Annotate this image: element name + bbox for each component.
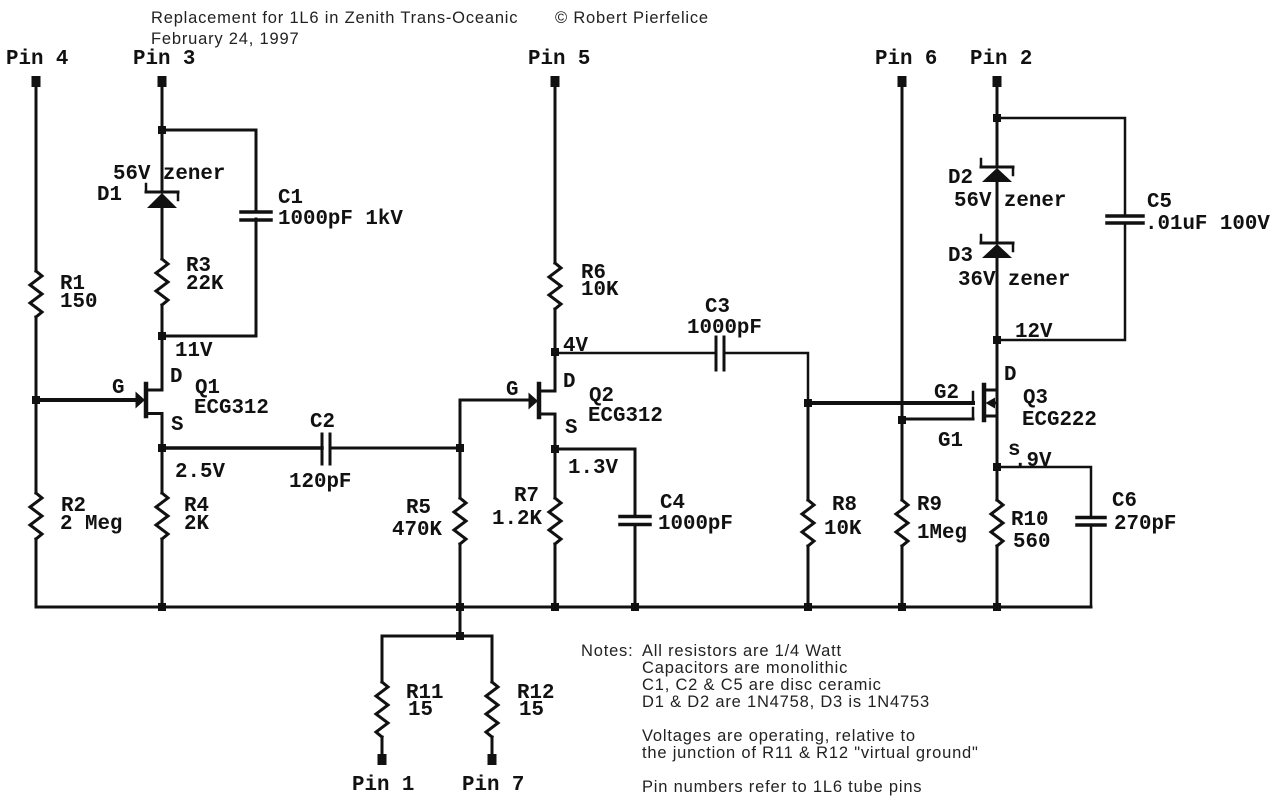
wire virtual ground right: [460, 636, 492, 682]
resistor R9: [896, 500, 908, 546]
svg-text:C1: C1: [278, 187, 303, 210]
capacitor C1: [241, 212, 271, 220]
resistor R1: [30, 271, 42, 317]
svg-text:2 Meg: 2 Meg: [60, 513, 122, 536]
zener D3: [981, 235, 1013, 258]
wire C1 branch bottom: [162, 219, 256, 336]
wire R12 to Pin7: [491, 737, 494, 755]
svg-text:R7: R7: [514, 485, 539, 508]
svg-text:ECG312: ECG312: [588, 405, 663, 428]
wire R5 to bottom rail: [459, 544, 462, 607]
pin pad Pin 1: [378, 754, 387, 765]
svg-text:15: 15: [519, 699, 544, 722]
svg-text:150: 150: [60, 291, 97, 314]
svg-text:C4: C4: [660, 492, 685, 515]
svg-text:36V zener: 36V zener: [958, 269, 1070, 292]
svg-text:1000pF: 1000pF: [687, 317, 762, 340]
capacitor C5: [1107, 216, 1143, 223]
node rail R5: [456, 603, 464, 611]
svg-text:G2: G2: [934, 382, 959, 405]
svg-text:Replacement for 1L6 in Zenith: Replacement for 1L6 in Zenith Trans-Ocea…: [151, 9, 518, 27]
resistor R10: [991, 500, 1003, 546]
svg-text:1000pF: 1000pF: [658, 513, 733, 536]
zener D1: [146, 184, 178, 208]
svg-text:ECG222: ECG222: [1022, 409, 1097, 432]
svg-text:.01uF 100V: .01uF 100V: [1145, 213, 1270, 236]
svg-text:270pF: 270pF: [1114, 513, 1176, 536]
svg-text:Voltages are operating, relati: Voltages are operating, relative to: [642, 727, 916, 745]
node 4V: [551, 348, 559, 356]
node G1: [898, 416, 906, 424]
svg-text:Pin 1: Pin 1: [352, 774, 414, 797]
svg-text:2.5V: 2.5V: [175, 461, 225, 484]
svg-text:© Robert Pierfelice: © Robert Pierfelice: [555, 9, 709, 27]
svg-text:10K: 10K: [581, 279, 619, 302]
svg-text:4V: 4V: [563, 335, 588, 358]
svg-text:February 24, 1997: February 24, 1997: [151, 30, 299, 48]
pin pad Pin 6: [898, 76, 907, 87]
svg-text:C2: C2: [310, 411, 335, 434]
svg-text:G1: G1: [938, 430, 963, 453]
resistor R8: [802, 500, 814, 546]
node Q1 source: [158, 444, 166, 452]
node Q1 gate: [32, 396, 40, 404]
svg-text:D1 & D2 are 1N4758, D3 is 1N47: D1 & D2 are 1N4758, D3 is 1N4753: [642, 693, 930, 711]
capacitor C3: [716, 337, 724, 370]
svg-text:Pin 2: Pin 2: [970, 48, 1032, 71]
svg-text:C6: C6: [1112, 490, 1137, 513]
wire C3 to Q3 gate2 corner: [724, 353, 808, 403]
svg-text:1.3V: 1.3V: [568, 457, 618, 480]
svg-text:S: S: [171, 414, 183, 437]
wire Pin4 vertical bottom: [35, 539, 38, 607]
svg-text:R5: R5: [406, 497, 431, 520]
svg-text:120pF: 120pF: [289, 471, 351, 494]
node 11V: [158, 332, 166, 340]
wire Pin6 vertical: [901, 85, 904, 500]
pin pad Pin 2: [993, 76, 1002, 87]
svg-text:1000pF 1kV: 1000pF 1kV: [278, 208, 403, 231]
wire R3 to node 11V: [161, 305, 164, 390]
svg-text:Pin 7: Pin 7: [462, 774, 524, 797]
wire Q3 source node to C6: [997, 467, 1091, 517]
zener D2: [981, 159, 1013, 182]
resistor R6: [549, 263, 561, 309]
svg-text:S: S: [565, 417, 577, 440]
wire Q2 source node to C4: [555, 449, 635, 516]
svg-text:.9V: .9V: [1014, 450, 1052, 473]
wire C6 to bottom rail: [1090, 525, 1093, 607]
svg-text:1.2K: 1.2K: [492, 508, 542, 531]
svg-text:C3: C3: [705, 296, 730, 319]
wire R7 to bottom rail: [554, 544, 557, 607]
wire R10 to bottom rail: [996, 546, 999, 607]
svg-text:470K: 470K: [392, 519, 442, 542]
svg-text:12V: 12V: [1015, 321, 1053, 344]
pin pad Pin 4: [32, 76, 41, 87]
svg-text:the junction of R11 & R12 "vir: the junction of R11 & R12 "virtual groun…: [642, 744, 979, 762]
wire D2 to D3: [996, 181, 999, 243]
node rail R10: [993, 603, 1001, 611]
wire node 4V to C3: [555, 352, 716, 355]
node C5 top: [993, 114, 1001, 122]
wire Pin2 vertical top: [996, 85, 999, 167]
svg-text:Pin numbers refer to 1L6 tube: Pin numbers refer to 1L6 tube pins: [642, 778, 922, 796]
svg-text:D2: D2: [948, 167, 973, 190]
wire Pin5 vertical top: [554, 85, 557, 263]
svg-text:All resistors are 1/4 Watt: All resistors are 1/4 Watt: [642, 642, 842, 660]
wire Pin3 vertical top: [161, 85, 164, 191]
resistor R12: [486, 682, 498, 737]
wire R5 node up and to Q2 gate: [460, 400, 530, 448]
node rail C4: [631, 603, 639, 611]
notes text: [581, 642, 979, 796]
node rail R7: [551, 603, 559, 611]
svg-text:22K: 22K: [186, 273, 224, 296]
transistor Q2: [529, 384, 556, 417]
wire Q3 drain-source vertical: [996, 390, 999, 500]
svg-text:C1, C2 & C5 are disc ceramic: C1, C2 & C5 are disc ceramic: [642, 676, 882, 694]
wire Pin4 vertical mid: [35, 317, 38, 493]
node rail R8: [804, 603, 812, 611]
resistor R7: [549, 498, 561, 544]
svg-text:G: G: [506, 379, 518, 402]
wire C5 branch top: [997, 118, 1125, 216]
svg-text:Capacitors are monolithic: Capacitors are monolithic: [642, 659, 848, 677]
node G2: [804, 399, 812, 407]
svg-text:Pin 4: Pin 4: [6, 48, 68, 71]
wire R11 to Pin1: [381, 737, 384, 755]
pin pad Pin 7: [488, 754, 497, 765]
wire R6 to node 4V: [554, 309, 557, 391]
wire R9 to bottom rail: [901, 546, 904, 607]
pin pad Pin 3: [158, 76, 167, 87]
wire R5 node down: [459, 448, 462, 498]
capacitor C2: [322, 434, 330, 464]
resistor R11: [376, 682, 388, 737]
svg-text:C5: C5: [1147, 191, 1172, 214]
wire D3 to node 12V: [996, 257, 999, 390]
wire C2 to R5 node: [330, 447, 460, 450]
svg-text:D1: D1: [97, 184, 122, 207]
node Q2 source: [551, 445, 559, 453]
wire C4 to bottom rail: [634, 525, 637, 608]
svg-text:11V: 11V: [175, 340, 213, 363]
wire Q1 source down: [161, 414, 164, 494]
svg-text:R8: R8: [832, 494, 857, 517]
wire R4 to bottom rail: [161, 539, 164, 607]
svg-text:R9: R9: [917, 494, 942, 517]
wire Q1 gate: [36, 398, 137, 402]
svg-text:56V zener: 56V zener: [113, 163, 225, 186]
pin pad Pin 5: [551, 76, 560, 87]
wire bottom rail: [36, 606, 1091, 609]
wire Q2 source down: [554, 414, 557, 498]
transistor Q3: [973, 385, 997, 420]
svg-text:Pin 6: Pin 6: [875, 48, 937, 71]
capacitor C4: [620, 517, 650, 525]
node C1 top: [158, 126, 166, 134]
svg-text:D: D: [563, 371, 575, 394]
svg-text:Pin 3: Pin 3: [133, 48, 195, 71]
svg-text:Pin 5: Pin 5: [528, 48, 590, 71]
svg-text:Notes:: Notes:: [581, 642, 634, 660]
svg-text:56V zener: 56V zener: [954, 190, 1066, 213]
svg-text:15: 15: [408, 699, 433, 722]
svg-text:Q3: Q3: [1023, 387, 1048, 410]
svg-text:G: G: [112, 377, 124, 400]
node C2-R5: [456, 444, 464, 452]
node Q3 source: [993, 463, 1001, 471]
svg-text:R10: R10: [1011, 509, 1048, 532]
wire Pin4 vertical top: [35, 85, 38, 271]
wire C5 branch bottom: [997, 223, 1125, 340]
wire R8 to bottom rail: [807, 546, 810, 607]
transistor Q1: [136, 384, 163, 416]
node rail R9: [898, 603, 906, 611]
capacitor C6: [1077, 518, 1105, 526]
wire G2 node to R8: [807, 403, 810, 500]
svg-text:D3: D3: [948, 245, 973, 268]
wire source node to C2: [162, 446, 322, 450]
node virtual ground: [456, 632, 464, 640]
svg-text:D: D: [170, 366, 182, 389]
resistor R5: [454, 498, 466, 544]
node rail R4: [158, 603, 166, 611]
wire D1 to R3: [161, 207, 164, 259]
svg-text:560: 560: [1013, 531, 1050, 554]
svg-text:2K: 2K: [184, 513, 209, 536]
node 12V: [993, 336, 1001, 344]
svg-text:ECG312: ECG312: [194, 397, 269, 420]
wire virtual ground junction: [382, 607, 460, 682]
svg-text:1Meg: 1Meg: [917, 522, 967, 545]
svg-text:10K: 10K: [824, 518, 862, 541]
wire C1 branch top: [162, 130, 256, 211]
svg-text:D: D: [1004, 364, 1016, 387]
resistor R2: [30, 493, 42, 539]
wire Q3 gate2: [808, 401, 973, 405]
wire Q3 gate1: [902, 418, 973, 421]
resistor R4: [156, 493, 168, 539]
resistor R3: [156, 259, 168, 305]
